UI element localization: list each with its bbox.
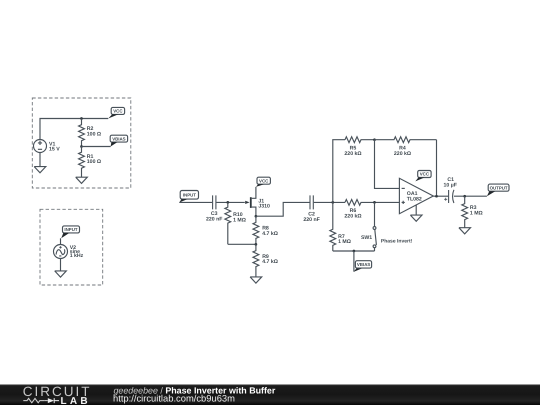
node K (R3 top) [463,195,466,198]
VBIAS flag (box 1) [110,135,127,146]
ground under R1 [76,177,88,183]
svg-text:220 nF: 220 nF [303,217,319,223]
wire INPUT flag to V2 [60,238,62,244]
C2 value label [303,212,319,223]
R8 value label [262,226,278,237]
capacitor C3 [213,195,216,209]
svg-text:220 kΩ: 220 kΩ [344,151,361,157]
wire riser up to top rail [333,140,345,203]
R5 value label [344,146,361,157]
node A (VCC rail / R2 top) [80,117,83,120]
node J (output node) [435,195,438,198]
svg-text:1 MΩ: 1 MΩ [338,239,351,245]
wire source to C2 (with jog) [256,202,310,216]
svg-text:220 nF: 220 nF [206,217,222,223]
svg-text:TL082: TL082 [407,197,422,203]
VCC flag (op-amp) [415,171,431,182]
V2 label sine 1 kHz [70,245,84,259]
ground under R3 [459,228,471,234]
wire R10 bottom to R8/R9 node [228,243,256,245]
VCC flag (JFET drain) [256,177,271,187]
ground under R9 [250,277,262,283]
logo resistor zigzag [23,398,44,402]
svg-text:VBIAS: VBIAS [112,136,125,141]
resistor R6 [345,200,399,206]
capacitor C2 [310,195,313,209]
wire inverting input branch [375,140,400,189]
svg-text:VCC: VCC [259,178,269,183]
R3 value label [470,205,483,216]
op-amp U1 OA1 TL082 [399,178,433,213]
svg-text:220 kΩ: 220 kΩ [394,151,411,157]
node F (summing junction riser) [331,201,334,204]
node H (non-inverting input node) [373,201,376,204]
svg-text:VCC: VCC [420,172,430,177]
footer bar [0,384,540,405]
wire C3 to JFET gate [216,201,244,203]
svg-text:4.7 kΩ: 4.7 kΩ [262,231,278,237]
wire INPUT to C3 [179,201,212,203]
svg-text:Phase Invert!: Phase Invert! [381,238,413,244]
J1 label J310 [258,198,270,209]
R4 value label [394,146,411,157]
svg-text:10 µF: 10 µF [444,182,457,188]
capacitor C1 (polarized) [444,190,454,203]
OUTPUT flag [487,184,509,196]
svg-text:INPUT: INPUT [183,193,196,198]
svg-text:VCC: VCC [113,109,123,114]
wire tap to VBIAS flag [82,146,111,148]
node E (R8/R9 junction) [255,243,258,246]
transistor J1 (N-JFET J310) [245,187,256,216]
ground under V2 [55,259,67,278]
node B (VBIAS divider tap) [80,145,83,148]
C1 value label [444,177,457,188]
svg-text:OUTPUT: OUTPUT [490,185,508,190]
svg-text:15 V: 15 V [49,147,60,153]
R9 value label [262,254,278,265]
node C (gate / R10 top) [226,201,229,204]
wire op-amp output [433,195,448,197]
voltage source V2 (sine) [54,245,68,259]
node G (R5/R4 junction) [373,138,376,141]
svg-text:4.7 kΩ: 4.7 kΩ [262,259,278,265]
svg-text:1 kHz: 1 kHz [70,253,84,259]
svg-text:LAB: LAB [61,396,91,405]
wire C1 to OUTPUT [454,195,487,197]
wire feedback down to output node [436,140,438,197]
R1 value label [87,154,101,165]
logo diode [44,398,59,403]
resistor R9 [253,244,259,277]
dashed subcircuit box 2 (input source) [40,209,103,285]
INPUT flag (main) [179,191,198,203]
ground under op-amp [410,205,422,222]
dashed subcircuit box 1 (power supply) [32,98,131,188]
svg-text:INPUT: INPUT [64,227,77,232]
C3 value label [206,211,222,222]
V1 label 15 V [49,141,60,152]
wire C2 to summing node [314,201,345,203]
resistor R10 [225,202,231,244]
svg-text:220 kΩ: 220 kΩ [344,214,361,220]
resistor R8 [253,216,259,244]
R6 value label [344,208,361,219]
R10 value label [233,212,246,223]
R7 value label [338,234,351,245]
resistor R3 [462,196,468,228]
OA1 label TL082 [407,191,422,202]
node D (source node) [255,215,258,218]
switch SW1 [373,202,376,251]
resistor R5 [345,137,375,143]
ground under V1 [34,153,46,173]
wire R7 bottom to SW1 bottom [333,250,375,252]
node I (VBIAS tap) [353,250,356,253]
R2 value label [87,126,101,137]
svg-text:VBIAS: VBIAS [357,262,370,267]
VBIAS flag (main) [354,251,372,272]
svg-text:1 MΩ: 1 MΩ [233,218,246,224]
svg-text:100 Ω: 100 Ω [87,132,101,138]
svg-text:100 Ω: 100 Ω [87,159,101,165]
resistor R4 [375,137,437,143]
resistor R1 [79,147,85,178]
voltage source V1 [34,140,47,153]
svg-text:1 MΩ: 1 MΩ [470,211,483,217]
svg-text:SW1: SW1 [361,235,372,241]
svg-text:http://circuitlab.com/cb9u63m: http://circuitlab.com/cb9u63m [113,392,235,403]
svg-text:J310: J310 [258,204,270,210]
resistor R7 [330,202,336,251]
wire V1 top to rail [40,119,108,140]
VCC flag (box 1) [108,107,124,118]
resistor R2 [79,119,85,147]
INPUT flag (box 2) [61,226,79,238]
